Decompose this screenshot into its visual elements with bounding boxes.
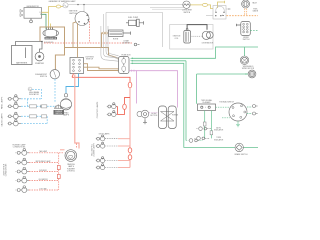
wire green fused circuit 1 to wiper motor: [133, 47, 258, 58]
battery: [12, 42, 43, 65]
wire brown to fuse box: [65, 48, 119, 59]
wire white dashed tachometer feed: [227, 15, 259, 17]
svg-text:BUTTON: BUTTON: [150, 115, 158, 117]
wire brown ignition to lighting switch: [77, 23, 79, 58]
wire green wiper switch out: [250, 30, 258, 32]
wire yellow relay top feed: [218, 1, 225, 8]
horns: [159, 106, 177, 129]
washer pump M2: [248, 70, 256, 78]
wire top bus from warning lamp to overdrive switch: [68, 5, 183, 12]
svg-text:HORN: HORN: [113, 39, 119, 41]
wiper switch: [236, 22, 250, 36]
wire red lighting switch output: [72, 74, 130, 83]
svg-text:GAUGE: GAUGE: [252, 10, 258, 13]
lamp running row 3: [16, 167, 30, 174]
svg-text:INDICATOR: INDICATOR: [29, 93, 39, 96]
wire salmon tail row2: [118, 145, 130, 147]
ground turn signal switch: [222, 118, 240, 127]
fuse F2: [123, 104, 127, 109]
svg-text:SWITCH: SWITCH: [86, 59, 94, 61]
wire yellow generator D to regulator and warning lamp: [42, 7, 64, 30]
high beam indicator: [28, 87, 32, 91]
resistor R3: [30, 115, 37, 118]
resistor R6: [203, 122, 206, 126]
lamp running row 1: [16, 149, 30, 156]
svg-text:GAUGE LAMPS: GAUGE LAMPS: [1, 113, 4, 127]
wire red dashed running bus vertical: [58, 153, 60, 190]
resistor R1: [30, 105, 37, 108]
wire green switch to right lamps: [247, 107, 252, 114]
lamp interior row 1: [107, 103, 118, 109]
wire green indicator branch 2: [210, 111, 212, 129]
fuse F3: [128, 148, 132, 153]
svg-text:INDICATOR: INDICATOR: [214, 129, 224, 132]
svg-text:WIPER MOTOR: WIPER MOTOR: [242, 68, 255, 70]
wire black coil to distributor: [187, 25, 207, 30]
connector on warning lamp wire: [56, 5, 60, 8]
wire brown ignition feed left leg: [73, 22, 77, 48]
wire red dashed running row5: [29, 189, 59, 191]
lamp turn LH: [253, 112, 258, 115]
lamp tail row 2: [96, 142, 118, 148]
wire magenta horn loop: [137, 71, 178, 108]
wire blue dashed gauge row2: [21, 123, 47, 125]
wire red to interior lamp rows: [117, 107, 125, 115]
wire salmon tail row4: [118, 167, 130, 169]
wire magenta horn feed: [129, 71, 137, 104]
svg-text:HORNS: HORNS: [172, 115, 179, 117]
wire blue dashed gauge row1: [21, 116, 47, 123]
wire blue dashed dip switch to dimmer: [54, 79, 56, 103]
wire salmon arrow into front lamp: [60, 149, 65, 151]
connector C1: [103, 32, 105, 34]
lamp indicator row 2: [195, 137, 210, 141]
starter: [35, 52, 44, 61]
wire red dashed running row1: [29, 152, 64, 154]
wire brown horn feed: [102, 33, 108, 48]
engine bay box: [170, 25, 213, 50]
svg-text:FUEL PUMP: FUEL PUMP: [128, 17, 139, 19]
svg-text:LAMPS: LAMPS: [63, 114, 70, 117]
wire blue lighting switch to headlamp: [66, 74, 79, 94]
svg-text:DISTRIBUTOR: DISTRIBUTOR: [202, 43, 214, 45]
generator G1: [20, 8, 42, 23]
lamp indicator row 1: [197, 127, 212, 131]
resistor R2: [42, 105, 47, 108]
wire green generator F to regulator: [42, 14, 47, 29]
wire green flasher to switch: [216, 106, 230, 108]
wire salmon tail row3: [118, 160, 130, 162]
wire red dashed ignition accessory down: [89, 21, 91, 43]
dimmer switch: [55, 104, 63, 108]
svg-text:INDICATOR: INDICATOR: [214, 138, 224, 141]
front side lamp: [65, 150, 77, 162]
svg-text:COURTESY LAMPS: COURTESY LAMPS: [96, 101, 99, 118]
lamp turn repeater: [186, 139, 203, 143]
wire blue dashed row1: [21, 99, 42, 107]
lamp tail row 4: [96, 164, 118, 170]
svg-text:BATTERIES: BATTERIES: [16, 61, 28, 64]
lamp running row 4: [16, 176, 30, 183]
lamp running row 2: [16, 158, 30, 165]
wire red branch to panel fuse: [125, 98, 131, 105]
svg-text:STOP LAMPS: STOP LAMPS: [99, 133, 111, 136]
resistor R4: [57, 166, 60, 170]
overdrive relay: [206, 6, 230, 20]
lamp gauge row 2: [8, 119, 22, 126]
svg-text:CONTROL: CONTROL: [67, 171, 75, 173]
wire green fused circuit 3 to brake switch: [133, 63, 258, 147]
svg-text:STARTER: STARTER: [35, 62, 44, 65]
wire red main lighting feed down: [129, 88, 131, 148]
wire salmon parking feed: [75, 75, 79, 149]
brake switch: [235, 143, 243, 151]
lamp panel row 2: [8, 102, 22, 109]
wire grey top link 2: [152, 8, 183, 10]
resistor R5: [57, 175, 60, 179]
wire green fused circuit 2: [133, 61, 248, 104]
wire salmon tail row1: [118, 138, 130, 140]
distributor: [192, 31, 214, 39]
wire magenta horn button to horns: [149, 112, 159, 114]
svg-text:T/SIGNAL SWITCH: T/SIGNAL SWITCH: [219, 100, 235, 103]
wire blue dashed row2 with resistors: [21, 105, 55, 107]
lamp panel row 1: [8, 95, 22, 102]
resistor R7: [210, 131, 213, 135]
wire green turn lamp branch: [185, 61, 187, 141]
fuse F4: [128, 155, 132, 160]
svg-text:TACH: TACH: [252, 2, 257, 5]
wire red dashed to front lamp: [76, 144, 78, 149]
svg-text:FLASHER: FLASHER: [203, 101, 212, 104]
wire brown regulator frame: [40, 27, 65, 70]
svg-text:COIL: COIL: [175, 38, 179, 40]
regulator: [43, 27, 59, 37]
wire yellow overdrive to relay: [190, 5, 213, 9]
svg-text:LIGHTER: LIGHTER: [122, 43, 130, 45]
svg-text:F: F: [40, 14, 41, 16]
lamp running row 5: [16, 186, 30, 193]
lamp tail row 3: [96, 157, 118, 163]
headlamp bulb: [60, 94, 71, 110]
lamp gauge row 1: [8, 112, 22, 119]
svg-text:PANEL LAMPS: PANEL LAMPS: [1, 96, 4, 109]
svg-text:GENERATOR WARNING LAMP: GENERATOR WARNING LAMP: [48, 0, 76, 3]
wire red dashed running row4: [29, 180, 59, 182]
svg-text:L: L: [205, 107, 206, 109]
svg-text:REGULATOR: REGULATOR: [45, 37, 57, 40]
wire red dashed running row3: [29, 171, 59, 173]
svg-text:BRAKE SWITCH: BRAKE SWITCH: [235, 153, 249, 156]
svg-text:LICENSE LAMPS: LICENSE LAMPS: [93, 142, 96, 156]
wire brown lighting switch to fuse box: [84, 64, 119, 71]
svg-text:SWITCH: SWITCH: [55, 113, 62, 115]
svg-text:SWITCH: SWITCH: [183, 12, 190, 14]
tachometer: [242, 0, 250, 8]
wire grey top link: [150, 7, 184, 9]
horn button: [137, 110, 149, 124]
wire blue dashed high beam indicator: [32, 90, 42, 100]
wire harness enclosure: [101, 13, 163, 62]
svg-text:CONNECTIONS: CONNECTIONS: [6, 163, 8, 176]
connector C3: [202, 3, 207, 6]
lamp interior row 2: [107, 111, 118, 117]
svg-text:GENERATOR: GENERATOR: [26, 5, 39, 8]
wire red dashed main accessory feed: [44, 42, 132, 44]
svg-text:SWITCH: SWITCH: [40, 76, 48, 78]
wiper motor M1: [240, 56, 248, 64]
svg-text:CONNECTIONS: CONNECTIONS: [13, 147, 26, 149]
wire green indicator branch 1: [204, 111, 206, 139]
fuse F1: [128, 82, 132, 88]
horn H1: [109, 30, 131, 37]
lamp tail row 1: [96, 135, 118, 141]
wire red between fuses: [129, 153, 131, 168]
wire brown regulator A: [52, 27, 54, 30]
overdrive switch: [183, 1, 190, 8]
lamp turn RH: [253, 105, 258, 108]
svg-text:SWITCH: SWITCH: [243, 39, 250, 41]
wire red dashed running row2: [29, 161, 59, 163]
connector C2: [105, 32, 107, 34]
